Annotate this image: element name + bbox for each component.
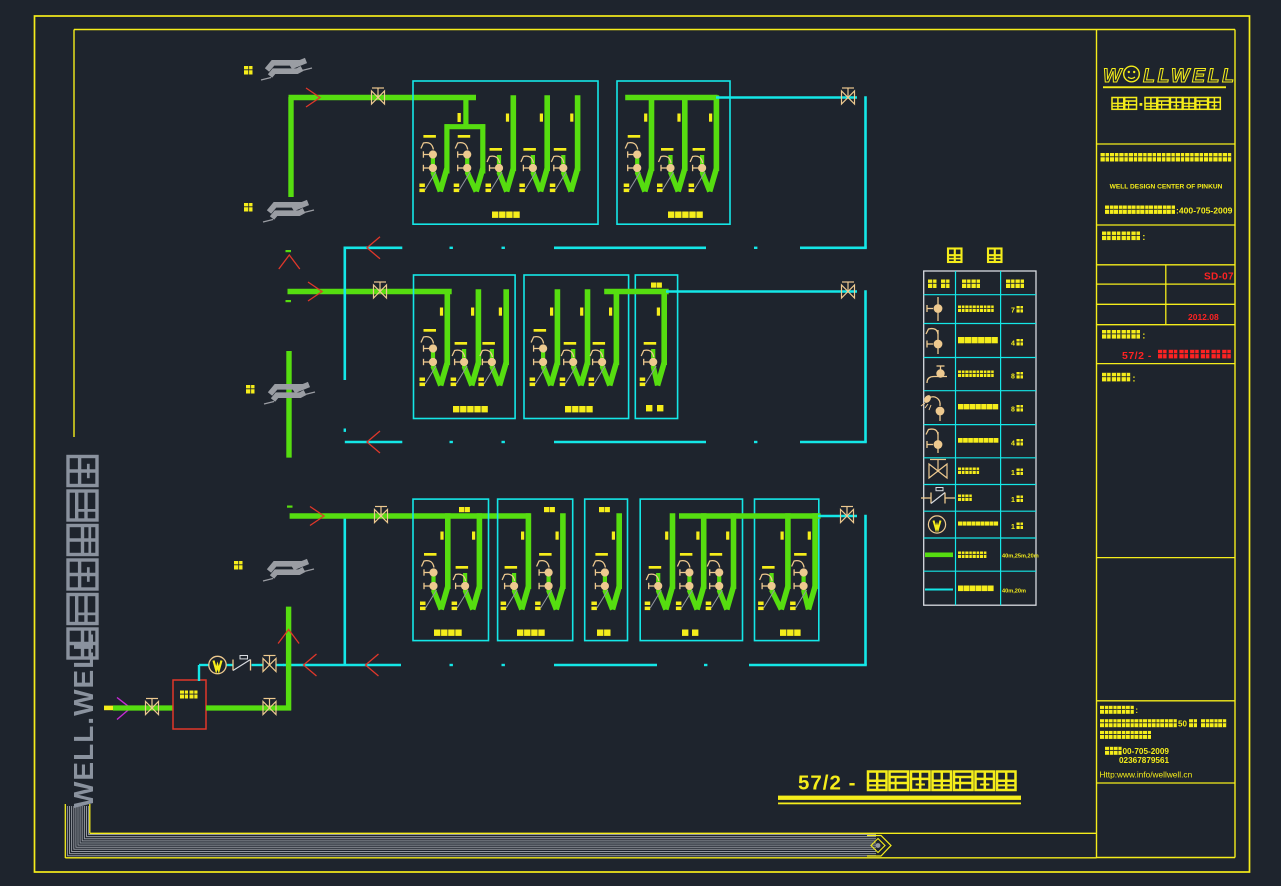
box G-C top label <box>599 507 610 512</box>
fixture unit G-B1 <box>501 513 529 610</box>
manifold tick L2-A <box>458 113 461 122</box>
return line G right <box>818 515 857 518</box>
return drop G <box>864 515 867 665</box>
sheet title underline thin <box>778 803 1021 805</box>
legend row6 desc <box>958 468 979 475</box>
phone line <box>1105 205 1233 215</box>
legend row5 symbol spout tap2 <box>926 429 942 453</box>
header pipe G-E <box>679 513 821 518</box>
legend table grid <box>924 271 1036 605</box>
svg-text:50: 50 <box>1178 720 1187 729</box>
title block bottom border <box>1097 857 1236 859</box>
svg-text:1: 1 <box>1011 470 1015 477</box>
return arrow L1 <box>367 431 380 453</box>
legend row4 qty <box>1011 405 1023 414</box>
return arrow L2 <box>367 237 380 259</box>
fixture unit L2-B1 <box>624 95 652 192</box>
fixture unit L1-A2 <box>451 289 479 386</box>
floor break symbol F3 <box>261 61 312 81</box>
logo subtitle text <box>1112 98 1220 110</box>
HQ address line2 <box>1100 731 1151 739</box>
title block dividers <box>1097 144 1236 783</box>
box L2-B label <box>668 212 703 218</box>
box G-D label <box>682 630 698 636</box>
legend row5 qty <box>1011 439 1023 448</box>
legend row1 qty <box>1011 306 1023 315</box>
svg-text:1: 1 <box>1011 524 1015 531</box>
header pipe L2-B <box>625 95 717 100</box>
inlet pipe <box>113 705 173 710</box>
pump riser arrow <box>278 630 299 644</box>
svg-text:W: W <box>1103 65 1123 87</box>
fixture unit G-A2 <box>452 513 480 610</box>
fixture group box L1-C <box>635 275 677 419</box>
gate valve bypass <box>263 656 276 672</box>
box G-B label <box>517 630 545 636</box>
svg-text:02367879561: 02367879561 <box>1119 756 1170 765</box>
svg-text:8: 8 <box>1011 407 1015 414</box>
gate valve pump inlet <box>146 699 159 715</box>
binding strip yellow boundary <box>65 804 1096 858</box>
fixture unit L2-A1 basin <box>419 135 447 192</box>
flow arrow L2 <box>306 88 320 107</box>
legend row3 desc <box>958 371 994 378</box>
return riser left <box>344 247 346 667</box>
gate valve L2 return <box>842 88 855 104</box>
floor label F1 <box>246 385 255 394</box>
box L1-C top label <box>651 283 662 288</box>
fixture unit L1-A1 <box>420 289 448 386</box>
gate valve pump discharge <box>263 699 276 715</box>
inner frame top line <box>74 29 1235 31</box>
floor label garage <box>234 561 243 570</box>
legend row6 qty <box>1011 469 1023 478</box>
flow arrow L1 <box>308 282 322 301</box>
svg-text::400-705-2009: :400-705-2009 <box>1176 205 1233 215</box>
box L2-A label <box>492 212 520 218</box>
legend row4 desc <box>958 404 998 409</box>
box L1-B label <box>565 406 593 412</box>
legend row1 desc <box>958 306 994 313</box>
gate valve G return <box>841 507 854 523</box>
svg-text:57/2 -: 57/2 - <box>798 772 856 795</box>
gate valve L1 supply <box>374 282 387 298</box>
fixture group box L1-A <box>414 275 516 419</box>
legend row8 symbol pump <box>928 516 945 533</box>
svg-text:40m,25m,20m: 40m,25m,20m <box>1002 554 1039 560</box>
supply riser L2 <box>288 97 293 197</box>
fixture unit G-D1 <box>645 513 673 610</box>
legend row8 desc <box>958 522 998 526</box>
supply main G <box>290 513 531 518</box>
company name CJK <box>1101 153 1232 162</box>
supply main L2 <box>289 95 477 100</box>
water inlet mark <box>104 706 113 711</box>
fixture unit G-E1 <box>758 513 788 610</box>
legend row4 symbol shower <box>921 394 944 421</box>
fixture group box G-E <box>755 499 819 640</box>
fixture group box L2-A <box>413 81 598 224</box>
binding strip hatch lines <box>67 806 876 856</box>
return arrow G2 <box>366 654 379 676</box>
sheet title underline thick <box>778 796 1021 800</box>
fixture unit L2-B3 <box>689 95 717 192</box>
legend row5 desc <box>958 438 998 443</box>
manifold tee L2-A <box>445 98 486 174</box>
gate valve L1 return <box>842 282 855 298</box>
legend row10 desc <box>958 586 994 592</box>
riser continuation mark G <box>287 506 293 508</box>
return line L2 right <box>716 96 857 99</box>
legend row6 symbol gate valve <box>929 460 947 479</box>
pump tank label <box>180 691 198 699</box>
legend row2 desc <box>958 337 998 343</box>
svg-text:57/2 -: 57/2 - <box>1122 350 1152 362</box>
floor break symbol F2 <box>263 203 314 223</box>
legend header cells <box>928 280 1024 289</box>
riser up arrow L1 <box>279 255 300 269</box>
legend row3 qty <box>1011 372 1023 381</box>
fixture unit L1-A3 <box>478 289 506 386</box>
legend row2 qty <box>1011 339 1023 348</box>
fixture group box G-C <box>585 499 628 640</box>
fixture group box L2-B <box>617 81 730 224</box>
supply riser mid segment <box>286 351 291 458</box>
svg-text::: : <box>1132 373 1135 384</box>
box L1-A label <box>453 406 488 412</box>
fixture unit G-E2 <box>790 513 815 610</box>
HQ label <box>1100 706 1138 715</box>
header pipe L1-C <box>604 289 669 294</box>
legend row7 qty <box>1011 496 1023 505</box>
floor break symbol F1 <box>264 385 315 405</box>
legend row2 symbol spout tap <box>926 329 942 354</box>
legend row9 symbol supply line swatch <box>925 553 953 558</box>
box L1-C label <box>646 405 663 411</box>
logo WELLWELL <box>1103 65 1237 87</box>
fixture unit L2-B2 <box>657 95 685 192</box>
fixture unit L1-C1 <box>640 289 665 386</box>
return line L1 horizontal <box>345 441 867 443</box>
return drop L2 <box>864 96 867 248</box>
fixture group box L1-B <box>524 275 629 419</box>
return line L1 right <box>666 290 857 293</box>
svg-text:40m,20m: 40m,20m <box>1002 589 1026 595</box>
pump bypass line <box>199 665 284 681</box>
svg-text:4: 4 <box>1011 341 1015 348</box>
box G-C label <box>597 630 611 636</box>
return line G horizontal <box>283 664 867 666</box>
svg-text:SD-07: SD-07 <box>1204 272 1234 283</box>
box G-B top label <box>544 507 555 512</box>
fixture unit L2-A5 <box>550 95 578 192</box>
floor label F3 <box>244 66 253 75</box>
svg-text::: : <box>1135 706 1138 715</box>
HQ phone <box>1105 747 1169 756</box>
pencil mark at strip end <box>867 836 891 857</box>
fixture unit L2-A3 <box>486 95 514 192</box>
gate valve L2 supply <box>372 88 385 104</box>
legend row10 symbol return line swatch <box>925 589 953 591</box>
legend row7 symbol check valve <box>921 488 955 504</box>
fixture unit L1-B3 <box>589 289 617 386</box>
svg-text::: : <box>1142 232 1145 243</box>
svg-text:2012.08: 2012.08 <box>1188 312 1219 322</box>
fixture unit G-A1 <box>420 513 448 610</box>
floor label F2 <box>244 203 253 212</box>
supply main L1 <box>288 289 452 294</box>
gate valve G supply <box>375 507 388 523</box>
fixture unit L2-A2 basin <box>454 135 483 192</box>
legend row8 qty <box>1011 523 1023 532</box>
svg-text:4: 4 <box>1011 441 1015 448</box>
legend row7 desc <box>958 495 972 502</box>
inner frame left line <box>73 30 75 438</box>
logo underline <box>1103 86 1226 88</box>
fixture unit L2-A4 <box>519 95 547 192</box>
svg-text:Http:www.info/wellwell.cn: Http:www.info/wellwell.cn <box>1100 770 1193 780</box>
pressure pump symbol <box>209 656 226 673</box>
legend row9 desc <box>958 552 986 559</box>
inlet arrow magenta <box>117 698 131 720</box>
check valve <box>233 656 251 671</box>
sheet name red title <box>1122 350 1231 362</box>
floor break symbol garage <box>263 562 314 582</box>
svg-text::: : <box>1142 331 1145 342</box>
return line L2 horizontal <box>345 247 867 249</box>
svg-text:7: 7 <box>1011 308 1015 315</box>
flow arrow G <box>310 507 324 526</box>
fixture group box G-B <box>498 499 573 640</box>
studio vertical text <box>68 457 99 809</box>
title block left border <box>1096 30 1098 858</box>
pump tank box <box>173 680 206 729</box>
legend title <box>948 249 1002 263</box>
fixture unit L1-B1 <box>530 289 558 386</box>
riser continuation mark L1b <box>286 300 292 302</box>
box G-A label <box>434 630 462 636</box>
return drop L1 <box>864 290 867 442</box>
pump riser <box>286 607 291 711</box>
sheet name label <box>1102 330 1145 342</box>
pump discharge pipe <box>206 705 291 710</box>
sheet title text <box>798 772 1016 795</box>
fixture unit G-C1 <box>591 513 619 610</box>
svg-text:8: 8 <box>1011 374 1015 381</box>
svg-text:1: 1 <box>1011 497 1015 504</box>
return arrow G1 <box>304 654 317 676</box>
svg-text:WELL DESIGN CENTER OF PINKUN: WELL DESIGN CENTER OF PINKUN <box>1110 184 1223 191</box>
title block right border <box>1234 30 1236 858</box>
fixture group box G-D <box>640 499 742 640</box>
fixture unit G-D3 <box>706 513 734 610</box>
svg-text:00-705-2009: 00-705-2009 <box>1123 747 1170 756</box>
riser continuation mark L1a <box>286 250 292 252</box>
svg-text:LLWELL: LLWELL <box>1143 65 1237 87</box>
fixture unit L1-B2 <box>560 289 588 386</box>
legend row3 symbol faucet <box>927 366 947 383</box>
fixture group box G-A <box>413 499 489 640</box>
legend table outer border <box>924 271 1036 605</box>
thumbnail label <box>1102 373 1136 385</box>
box G-A top label <box>459 507 470 512</box>
fixture unit G-D2 <box>676 513 704 610</box>
legend row1 symbol tap <box>927 297 942 321</box>
project name label <box>1102 232 1145 244</box>
HQ address line1 <box>1100 719 1226 728</box>
fixture unit G-B2 <box>535 513 563 610</box>
box G-E label <box>780 630 801 636</box>
